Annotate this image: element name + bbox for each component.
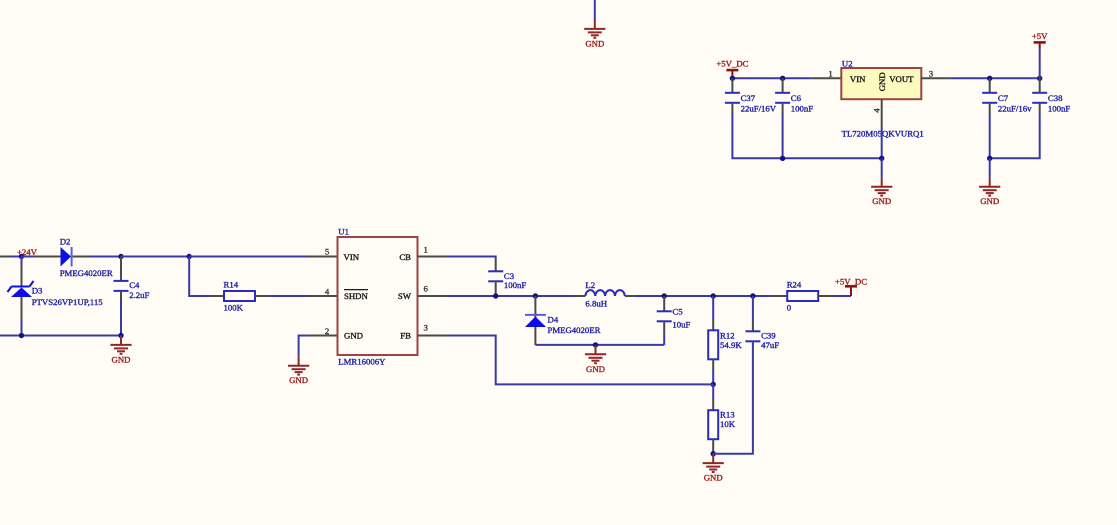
svg-text:CB: CB [399,252,411,262]
capacitor C4 [114,281,129,291]
svg-text:GND: GND [704,473,723,483]
svg-text:VOUT: VOUT [889,74,914,84]
wire +24V to D2 [22,256,34,258]
resistor R12 [708,330,718,359]
capacitor C5 [657,311,672,321]
R12 top pin [712,320,714,330]
U1 pin 6 [418,295,447,297]
junction C7 bottom / GND [987,156,992,161]
svg-text:10K: 10K [720,419,736,429]
svg-text:C4: C4 [129,280,140,290]
svg-text:L2: L2 [585,280,595,290]
C5 bottom pin [663,321,665,336]
svg-text:47uF: 47uF [761,340,779,350]
wire +24V [10,256,22,258]
svg-text:SHDN: SHDN [344,291,369,301]
svg-text:2.2uF: 2.2uF [129,290,149,300]
svg-text:D2: D2 [60,236,71,246]
R14 left pin [210,295,224,297]
junction D4 / SW [533,293,538,298]
C3 bottom pin [495,281,497,294]
U1 pin 2 [309,335,338,337]
wire FB feedback [447,336,714,385]
C3 top pin [495,259,497,272]
wire CB to C3 [447,257,496,259]
L2 right pin [625,295,634,297]
svg-text:+5V: +5V [1032,31,1048,41]
D3 pin bottom [21,297,23,320]
wire C6 to GND rail [782,113,784,158]
junction +24V / D3 [19,254,24,259]
wire branch to R14 [189,257,210,297]
wire to VIN branch [121,256,189,258]
ground divider [703,454,724,472]
svg-text:2: 2 [325,326,329,336]
power port +5V_DC (U2 input) [726,70,738,78]
capacitor C38 [1032,93,1047,103]
junction +5V_DC / C37 [730,76,735,81]
svg-text:1: 1 [828,69,832,79]
pin from off-sheet connector [0,256,10,258]
C6 top pin [782,78,784,93]
wire C5 down [663,336,665,345]
capacitor C37 [725,93,740,103]
capacitor C6 [775,93,790,103]
ground U1 [288,356,309,374]
resistor R14 [224,291,255,301]
svg-text:100nF: 100nF [791,104,814,114]
junction C4 top [118,254,123,259]
junction C38 top / +5V [1037,76,1042,81]
wire +5V_DC rail to U2 pin1 [732,77,811,79]
junction R12 top [711,293,716,298]
L2 left pin [575,295,585,297]
U2 pin 3 [921,77,950,79]
inductor L2 [585,290,624,296]
svg-text:GND: GND [877,72,887,91]
junction GND tap [593,342,598,347]
C4 bottom pin [120,291,122,300]
op-amp U1 body [338,237,418,355]
capacitor C39 [745,331,760,341]
R14 right pin [255,295,270,297]
svg-text:100nF: 100nF [504,280,527,290]
R13 top pin [712,400,714,410]
svg-text:0: 0 [787,303,792,313]
svg-text:GND: GND [344,331,363,341]
U1 pin 4 [308,295,338,297]
resistor R13 [708,410,718,439]
resistor R24 [787,291,818,301]
junction C3 / SW [493,293,498,298]
diode D2 [61,247,72,267]
C5 top pin [663,296,665,311]
svg-text:VIN: VIN [850,74,866,84]
wire to R12 [712,296,714,320]
wire U2 VOUT to +5V [950,77,1039,79]
C7 bottom pin [989,103,991,113]
wire U2 input GND rail [732,113,881,158]
svg-text:1: 1 [424,244,428,254]
ground U2 [871,177,892,195]
svg-text:C5: C5 [672,307,683,317]
svg-text:GND: GND [872,196,891,206]
svg-text:6.8uH: 6.8uH [585,298,607,308]
wire stub to GND [881,158,883,177]
U2 pin 4 [881,99,883,128]
wire SW rail [447,295,576,297]
R13 bottom pin [712,439,714,450]
C38 top pin [1039,78,1041,93]
junction C4 bottom / GND [118,333,123,338]
svg-text:C39: C39 [761,331,776,341]
D2 anode pin [33,256,61,258]
junction D3 bottom [19,333,24,338]
wire U1 GND to ground [299,336,309,357]
svg-text:PTVS26VP1UP,115: PTVS26VP1UP,115 [32,297,104,307]
svg-text:U1: U1 [338,226,349,236]
wire C39 to GND [713,341,753,453]
C4 top pin [120,257,122,281]
svg-text:+5V_DC: +5V_DC [716,59,748,69]
ground U2 output [979,177,1000,195]
wire C4 down [120,300,122,336]
junction C6 bottom [780,156,785,161]
svg-text:GND: GND [585,38,604,48]
svg-text:3: 3 [424,322,429,332]
wire L2 to R24 [634,295,772,297]
wire D4/C5 GND rail [535,344,664,346]
C7 top pin [989,78,991,93]
svg-text:4: 4 [325,286,330,296]
wire R12 to FB node [712,369,714,384]
svg-text:R12: R12 [720,331,735,341]
C37 top pin [731,78,733,93]
wire to D3 [21,257,23,267]
junction VIN / SHDN branch [187,254,192,259]
TVS diode D3 [11,288,32,298]
svg-text:D4: D4 [548,315,559,325]
svg-text:C7: C7 [998,93,1009,103]
svg-text:5: 5 [325,247,330,257]
svg-text:100K: 100K [224,303,244,313]
svg-text:C37: C37 [741,93,756,103]
U2 pin 1 [812,77,842,79]
U1 pin 5 [308,256,338,258]
svg-text:U2: U2 [842,59,853,69]
svg-text:D3: D3 [32,286,43,296]
svg-text:10uF: 10uF [672,319,690,329]
wire C7 down [989,113,991,158]
svg-text:54.9K: 54.9K [720,340,742,350]
capacitor C7 [982,93,997,103]
svg-text:GND: GND [289,375,308,385]
diode D4 [534,296,536,345]
wire R13 to GND [712,450,714,454]
svg-text:+5V_DC: +5V_DC [835,276,867,286]
R24 right pin [818,295,833,297]
junction C39 top [750,293,755,298]
op-amp U2 body [841,68,921,99]
U1 pin 1 [418,256,447,258]
junction FB divider [711,382,716,387]
svg-text:C38: C38 [1048,93,1063,103]
wire FB node to R13 [712,384,714,400]
svg-text:R14: R14 [224,280,239,290]
svg-text:22uF/16V: 22uF/16V [741,104,777,114]
C37 bottom pin [731,103,733,113]
wire C3 to SW [495,294,497,296]
svg-text:C6: C6 [791,93,802,103]
svg-text:LMR16006Y: LMR16006Y [338,356,386,366]
svg-text:GND: GND [980,196,999,206]
wire C38 to output GND rail [990,113,1040,158]
svg-text:100nF: 100nF [1048,104,1071,114]
ground buck [585,345,606,363]
wire stub to GND [989,158,991,177]
svg-text:PMEG4020ER: PMEG4020ER [60,268,113,278]
wire R14 to SHDN [270,295,308,297]
junction C7 top [987,76,992,81]
ground input [110,336,131,354]
C6 bottom pin [782,103,784,113]
svg-text:FB: FB [400,331,411,341]
power port +5V [1034,42,1046,48]
ground top [584,20,605,38]
svg-text:6: 6 [424,283,429,293]
junction C5 top [662,293,667,298]
svg-text:PMEG4020ER: PMEG4020ER [548,325,601,335]
power port +5V_DC output [845,286,857,296]
D3 pin top [21,266,23,287]
junction R13 / C39 GND [711,451,716,456]
wire to U1 VIN [189,256,308,258]
wire U2 pin4 to GND rail [881,128,883,158]
wire R24 to +5V_DC [833,295,851,297]
wire D3 to GND rail [21,320,23,336]
R12 bottom pin [712,359,714,369]
capacitor C3 [488,271,503,281]
U1 pin 3 [418,335,447,337]
svg-text:R24: R24 [787,280,802,290]
svg-text:3: 3 [929,68,934,78]
C38 bottom pin [1039,103,1041,113]
wire to C39 [752,296,754,321]
svg-text:GND: GND [112,354,131,364]
svg-text:22uF/16v: 22uF/16v [998,104,1032,114]
junction C6 top [780,76,785,81]
svg-text:SW: SW [398,291,412,301]
C39 top pin [752,321,754,331]
wire D2 to C4 [90,256,121,258]
wire to top GND [594,0,596,20]
svg-text:GND: GND [586,364,605,374]
R24 left pin [772,295,787,297]
wire +5V riser [1039,49,1041,79]
D2 cathode pin [73,256,90,258]
svg-text:4: 4 [871,108,881,113]
svg-text:VIN: VIN [344,252,360,262]
wire input GND rail [0,335,121,337]
junction U2 GND [879,156,884,161]
